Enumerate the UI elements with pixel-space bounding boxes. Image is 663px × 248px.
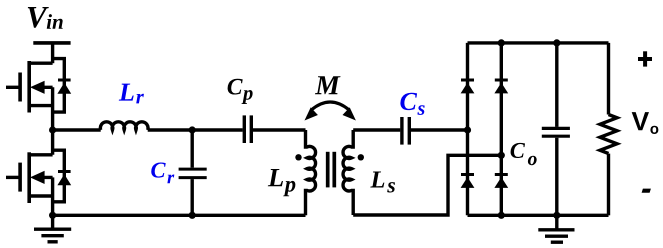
label Ls xyxy=(370,171,395,192)
node SW junction dot xyxy=(49,126,56,133)
transformer core xyxy=(328,152,335,188)
Q1 gate bar xyxy=(18,73,22,102)
wire Lr to node A to Cp xyxy=(148,128,243,131)
wire Cp to Lp xyxy=(253,128,306,131)
wire Q1 body/source to node SW xyxy=(51,87,54,155)
capacitor Co xyxy=(542,43,570,215)
bottom rail (output -) xyxy=(468,214,609,217)
label Vin xyxy=(28,7,63,29)
label Lr xyxy=(119,84,144,104)
secondary polarity dot xyxy=(358,154,364,160)
Q1 drain stub xyxy=(29,62,52,65)
wire Ls top to Cs xyxy=(353,128,400,131)
diode D3 (leg1 upper) xyxy=(461,80,475,93)
bridge leg1 wire xyxy=(466,43,469,215)
top rail (output +) xyxy=(468,41,609,44)
wire Cs to bridge leg1 xyxy=(411,128,468,131)
bottom rail (primary side) xyxy=(53,214,306,217)
node Co top dot xyxy=(553,39,560,46)
node leg2 top dot xyxy=(498,39,505,46)
diode D1 (Q1 body diode) xyxy=(53,59,72,113)
transistor Q2 (low-side MOSFET) xyxy=(6,152,53,203)
Vin supply terminal bar xyxy=(33,41,70,45)
Q2 drain stub xyxy=(29,153,52,156)
bridge leg2 wire xyxy=(500,43,503,215)
diode D2 (Q2 body diode) xyxy=(53,150,72,202)
label - (output negative) xyxy=(642,189,651,193)
inductor Lr xyxy=(100,122,148,130)
node bottom-left junction dot xyxy=(49,212,56,219)
mutual coupling arc with arrowheads xyxy=(305,102,356,121)
capacitor Cr xyxy=(179,130,207,215)
Q2 gate bar xyxy=(18,163,22,192)
transistor Q1 (high-side MOSFET) xyxy=(6,61,53,113)
diode D4 (leg1 lower) xyxy=(461,175,475,188)
inductor Ls (transformer secondary winding) xyxy=(343,130,353,215)
Q1 gate lead xyxy=(6,86,20,89)
diode D6 (leg2 lower) xyxy=(494,175,508,188)
label M xyxy=(315,76,341,94)
node leg2 bottom dot xyxy=(498,212,505,219)
wire node SW to Lr xyxy=(53,128,101,131)
ground (left) xyxy=(34,215,71,242)
wire Vin bar to Q1 drain xyxy=(51,43,54,63)
Q1 source stub xyxy=(29,104,52,107)
capacitor Cp xyxy=(244,115,251,143)
wire Ls bottom to bridge leg2 mid xyxy=(353,155,501,215)
label + (output positive) xyxy=(638,51,652,66)
wire Q2 source to bottom rail xyxy=(51,177,54,215)
node leg1 mid junction dot xyxy=(464,126,471,133)
Q2 channel bar xyxy=(27,152,31,203)
label Cr xyxy=(151,163,174,184)
label Vo xyxy=(632,112,659,134)
resistor RL (load) xyxy=(600,43,617,215)
label Co xyxy=(511,143,537,165)
Q1 body stub with arrow xyxy=(36,86,53,89)
label Cp xyxy=(228,79,253,104)
ground (right) xyxy=(538,215,574,242)
label Cs xyxy=(400,93,424,115)
Q2 gate lead xyxy=(6,176,20,179)
capacitor Cs xyxy=(402,117,409,145)
diode D5 (leg2 upper) xyxy=(494,80,508,93)
inductor Lp (transformer primary winding) xyxy=(306,130,316,215)
node leg2 mid junction dot xyxy=(498,152,505,159)
label Lp xyxy=(268,169,296,196)
node Cr-bottom junction dot xyxy=(189,212,196,219)
primary polarity dot xyxy=(295,154,301,160)
Q1 channel bar xyxy=(27,61,31,113)
Q2 source stub xyxy=(29,194,52,197)
Q2 body stub with arrow xyxy=(36,176,53,179)
node A junction dot xyxy=(189,126,196,133)
node Co bottom dot xyxy=(553,212,560,219)
